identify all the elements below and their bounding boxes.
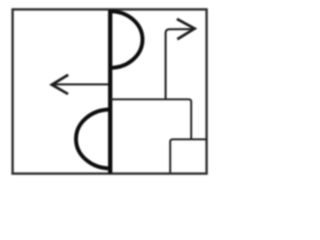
wire: partition segments A+B (horizontal then down) bbox=[110, 99, 191, 139]
arrow pointing left bbox=[52, 75, 109, 94]
border frame bbox=[13, 9, 207, 173]
wire hop: lower semicircle bulging left bbox=[76, 110, 110, 169]
wire: thick vertical wall bbox=[108, 10, 112, 174]
arrow pointing right (with riser) bbox=[166, 19, 195, 99]
wire hop: upper semicircle bulging right bbox=[110, 11, 142, 68]
wire: partition segments C+D (horizontal then down) bbox=[170, 139, 206, 173]
